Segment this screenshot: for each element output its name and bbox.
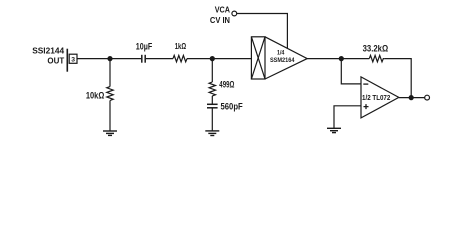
wire R 499 to C 560pF <box>211 96 213 104</box>
terminal circle VCA CV IN <box>232 11 237 16</box>
wire op-amp plus input to ground <box>334 106 361 128</box>
resistor R 33.2k (zigzag) <box>369 55 384 61</box>
junction node C (VCA out) <box>339 56 344 61</box>
svg-text:CV IN: CV IN <box>210 15 230 25</box>
svg-text:3: 3 <box>71 57 75 64</box>
wire R 10k to ground <box>109 101 111 131</box>
wire CV IN to VCA top <box>237 14 288 49</box>
node SSI2144 OUT label <box>32 46 65 66</box>
resistor R 10k (vertical zigzag) <box>107 87 113 101</box>
resistor R 1k (zigzag) <box>173 55 187 61</box>
svg-text:SSM2164: SSM2164 <box>270 57 295 64</box>
resistor R 499 (vertical zigzag) <box>209 82 215 96</box>
svg-text:10µF: 10µF <box>136 42 153 52</box>
op-amp U2 1/2 TL072 <box>361 77 399 118</box>
svg-text:OUT: OUT <box>47 55 65 65</box>
wire R 33.2k to output node (feedback) <box>384 59 411 98</box>
ground (below 10k) <box>103 131 117 135</box>
wire op-amp output <box>399 97 425 99</box>
svg-text:1/4: 1/4 <box>277 50 285 57</box>
svg-text:VCA: VCA <box>215 4 230 14</box>
output terminal circle <box>425 95 430 100</box>
capacitor C1 10µF <box>142 55 145 63</box>
node VCA CV IN label <box>210 4 230 25</box>
svg-text:499Ω: 499Ω <box>219 79 234 89</box>
connector bar (SSI2144 OUT) <box>66 49 68 72</box>
wire node C down to op-amp inverting input <box>341 59 361 84</box>
junction node A (10k tap) <box>107 56 112 61</box>
wire node B down to R 499 <box>211 59 213 82</box>
junction node B (filter tap) <box>210 56 215 61</box>
svg-text:1kΩ: 1kΩ <box>175 41 187 51</box>
non-inverting input plus sign <box>364 104 369 109</box>
capacitor C 560pF <box>207 104 218 108</box>
svg-text:10kΩ: 10kΩ <box>86 90 104 100</box>
op-amp U1 VCA 1/4 SSM2164 <box>251 37 307 79</box>
wire node A down to R 10k <box>109 59 111 87</box>
ground (op-amp non-inverting input) <box>327 128 341 132</box>
svg-text:1/2 TL072: 1/2 TL072 <box>362 95 390 102</box>
junction node D (output/feedback) <box>409 95 414 100</box>
pin 3 box <box>69 54 77 63</box>
svg-text:33.2kΩ: 33.2kΩ <box>363 43 389 53</box>
wire C 560pF to ground <box>211 108 213 131</box>
wire C1 to R 1k <box>146 58 173 60</box>
wire pin3 to capacitor C1 <box>77 58 141 60</box>
ground (below 560pF) <box>205 131 219 136</box>
inverting input minus sign <box>363 83 368 85</box>
wire VCA output to feedback corner <box>307 58 369 60</box>
svg-text:560pF: 560pF <box>221 102 244 112</box>
wire R 1k to VCA input <box>187 58 251 60</box>
svg-text:SSI2144: SSI2144 <box>32 46 64 56</box>
